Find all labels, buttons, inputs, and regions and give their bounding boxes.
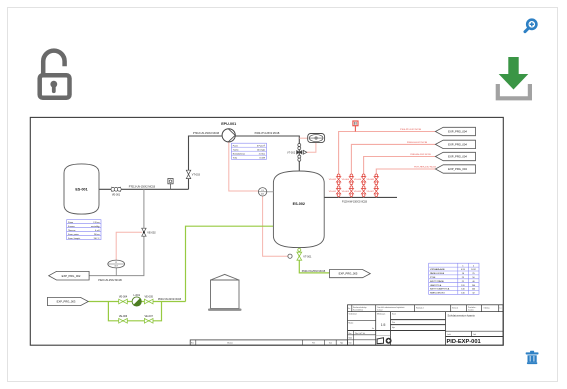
svg-text:2.3 bar: 2.3 bar xyxy=(259,153,266,155)
svg-text:Odottaa: Odottaa xyxy=(484,307,490,310)
svg-text:P040-VN-25X2 MC1B: P040-VN-25X2 MC1B xyxy=(302,270,326,273)
svg-text:2.5 bar: 2.5 bar xyxy=(93,222,100,224)
svg-text:PT013-UN-150X2 MC1B: PT013-UN-150X2 MC1B xyxy=(193,132,220,135)
svg-text:Hankala 4: Hankala 4 xyxy=(416,308,424,310)
svg-text:VD-007: VD-007 xyxy=(366,191,374,193)
wire green riser to ES-002 left xyxy=(186,226,274,301)
valve VT-003 xyxy=(186,170,191,178)
svg-text:007: 007 xyxy=(115,266,118,268)
valve VD-003 xyxy=(349,186,353,197)
svg-text:110 °C: 110 °C xyxy=(94,238,101,240)
svg-text:EXP_PRG_005: EXP_PRG_005 xyxy=(339,272,358,276)
svg-text:6 Pa/cm²: 6 Pa/cm² xyxy=(257,144,265,147)
wire impulse line EPU-001 to LS (pink) xyxy=(229,141,259,191)
wire impulse stub to PSA (pink) xyxy=(299,137,307,139)
svg-text:P077-HKK-DX2 NC1B: P077-HKK-DX2 NC1B xyxy=(414,166,436,168)
svg-text:10.5 kg/s: 10.5 kg/s xyxy=(257,149,265,151)
svg-text:L-001: L-001 xyxy=(133,293,140,297)
wire riser to EPU-001 suction xyxy=(189,136,223,189)
svg-text:Rev: Rev xyxy=(191,342,194,344)
svg-text:Sirukansa/selvitys: Sirukansa/selvitys xyxy=(353,306,367,309)
svg-text:VD-004: VD-004 xyxy=(342,179,350,181)
svg-text:P040-VN-32X2 NC1B: P040-VN-32X2 NC1B xyxy=(158,298,182,301)
svg-text:VD-001: VD-001 xyxy=(329,191,337,193)
vessel ES-002 xyxy=(273,171,324,248)
svg-text:Kuvaus: Kuvaus xyxy=(68,226,75,228)
svg-text:EPU-001: EPU-001 xyxy=(221,122,236,126)
off-page connector EXP_PRG_002 xyxy=(49,271,89,280)
svg-text:Suhdatusmaton kaavio: Suhdatusmaton kaavio xyxy=(448,314,476,318)
svg-text:Paine: Paine xyxy=(233,145,239,147)
off-page connector EXP_PRG_005 xyxy=(330,270,371,278)
design data table xyxy=(429,263,479,294)
off-page connector EXP_PRG_008 xyxy=(435,165,475,173)
wire EPU-001 discharge to ES-002 top xyxy=(235,136,299,171)
svg-text:LÄMPÖTILA: LÄMPÖTILA xyxy=(430,284,442,287)
svg-text:Mittakaava: Mittakaava xyxy=(377,313,385,316)
svg-text:Suun. paine: Suun. paine xyxy=(68,234,80,236)
svg-text:VE-001: VE-001 xyxy=(112,194,121,197)
svg-text:Paine: Paine xyxy=(68,222,74,224)
svg-text:Tilavuus: Tilavuus xyxy=(68,230,75,232)
off-page connector EXP_PRG_006 xyxy=(435,140,475,148)
svg-text:Lu: Lu xyxy=(500,308,502,310)
svg-text:001: 001 xyxy=(261,194,264,196)
valve VE-007 xyxy=(144,319,153,324)
svg-text:4a: 4a xyxy=(348,308,350,310)
data table ES-001 xyxy=(67,220,101,240)
wire impulse line VE-002 to PI-007 (pink) xyxy=(116,232,142,260)
valve VD-001 xyxy=(336,186,340,197)
svg-text:VE-007: VE-007 xyxy=(145,315,154,318)
svg-text:EXP_PRG_004: EXP_PRG_004 xyxy=(448,167,467,171)
svg-text:Rev: Rev xyxy=(349,333,352,335)
wire impulse PSA drain (pink) xyxy=(307,143,316,153)
trash icon xyxy=(526,351,539,364)
svg-text:VT-001: VT-001 xyxy=(303,255,312,258)
valve VD-005 xyxy=(361,186,365,197)
valve VE-001 xyxy=(111,187,121,191)
svg-text:PYSE: PYSE xyxy=(430,277,436,279)
svg-text:ES-002: ES-002 xyxy=(293,202,305,206)
svg-text:VIRTAAVA-AINE: VIRTAAVA-AINE xyxy=(430,268,445,271)
svg-text:Hyv: Hyv xyxy=(340,342,343,344)
wire relief line 3 (red) xyxy=(364,157,436,198)
svg-text:Jatk: Jatk xyxy=(473,333,476,336)
instrument PSA xyxy=(308,134,325,143)
wire green ES-002 bottom outlet xyxy=(299,247,329,273)
svg-text:P090-KH-DX2 NC1B: P090-KH-DX2 NC1B xyxy=(407,142,428,144)
wire PI-007 stub xyxy=(115,268,117,276)
storage tank xyxy=(208,274,242,311)
instrument PI-007 xyxy=(108,260,125,268)
wire gray line from EXP_PRG_002 xyxy=(89,189,144,275)
svg-text:EXP_PRG_003: EXP_PRG_003 xyxy=(57,300,76,304)
svg-text:Suun: Suun xyxy=(392,314,396,316)
wire green line from EXP_PRG_003 xyxy=(89,301,186,303)
svg-text:P120-KW-150X2 NC1B: P120-KW-150X2 NC1B xyxy=(342,201,367,204)
svg-text:in.staat: in.staat xyxy=(377,309,383,312)
valve VE-006 xyxy=(119,319,128,324)
svg-text:Tuotto: Tuotto xyxy=(233,148,239,151)
valve VD-002 xyxy=(336,174,340,185)
svg-text:4a: 4a xyxy=(372,328,374,330)
svg-text:20 bar: 20 bar xyxy=(94,234,100,236)
svg-text:EXP_PRG_004: EXP_PRG_004 xyxy=(448,155,467,159)
valve VT-002 with hand actuator xyxy=(297,144,307,162)
gear icon xyxy=(386,338,392,344)
wire ES-002 right outlet header xyxy=(324,196,397,198)
instrument square FI xyxy=(168,179,173,184)
svg-text:Versio 4: Versio 4 xyxy=(452,307,458,310)
pump L-001 xyxy=(132,297,141,306)
svg-text:Tark: Tark xyxy=(329,341,332,344)
svg-text:Suunnitelmat: Suunnitelmat xyxy=(353,309,363,312)
valve VE-002 xyxy=(142,228,146,236)
svg-text:Nostokorkeus: Nostokorkeus xyxy=(233,152,245,155)
off-page connector EXP_PRG_003 xyxy=(48,297,89,305)
lock icon xyxy=(40,51,70,98)
svg-text:neste/öljy: neste/öljy xyxy=(91,225,99,228)
svg-text:VD-002: VD-002 xyxy=(329,179,337,181)
svg-text:VD-003: VD-003 xyxy=(342,191,350,193)
off-page connector EXP_PRG_004 xyxy=(435,127,475,135)
svg-text:PID-EXP-001: PID-EXP-001 xyxy=(447,339,481,345)
vessel ES-001 xyxy=(64,164,99,214)
svg-text:muutos: muutos xyxy=(468,309,474,312)
svg-text:VE-002: VE-002 xyxy=(147,231,156,234)
svg-text:P022-UN-25X2 MC1B: P022-UN-25X2 MC1B xyxy=(98,279,122,282)
wire green bypass loop xyxy=(108,302,161,321)
svg-text:KÄYTTÖPAINE: KÄYTTÖPAINE xyxy=(430,280,445,283)
svg-text:15 kW: 15 kW xyxy=(259,157,265,159)
wire relief line 4 (red) xyxy=(376,169,435,197)
svg-text:Suun. lämpöt.: Suun. lämpöt. xyxy=(68,237,81,240)
svg-text:VE-005: VE-005 xyxy=(145,296,154,299)
svg-text:P100-P11-DX2 NC1B: P100-P11-DX2 NC1B xyxy=(400,129,422,131)
printer icon xyxy=(377,338,383,344)
svg-text:Muutos: Muutos xyxy=(227,341,233,344)
spec break box xyxy=(353,121,358,132)
valve VD-008 xyxy=(374,174,378,185)
wire instrument stub xyxy=(170,184,172,190)
title block xyxy=(348,305,504,345)
svg-text:VE-004: VE-004 xyxy=(119,296,128,299)
drawing frame xyxy=(30,117,503,345)
svg-text:PAINELUOKKA: PAINELUOKKA xyxy=(430,272,445,275)
svg-text:Tarkistanut: Tarkistanut xyxy=(349,313,358,316)
svg-text:VE-006: VE-006 xyxy=(119,315,128,318)
wire relief line 2 (red) xyxy=(351,144,435,197)
valve VT-001 xyxy=(297,248,302,260)
svg-text:Pvm/aika +: Pvm/aika + xyxy=(468,307,476,309)
valve VD-006 xyxy=(361,174,365,185)
data table EPU-001 xyxy=(231,143,266,159)
valve VD-007 xyxy=(374,186,378,197)
svg-text:Omn hld: rakentamisessa käytet: Omn hld: rakentamisessa käytettävä xyxy=(377,306,404,309)
svg-text:EXP_PRG_004: EXP_PRG_004 xyxy=(448,130,467,134)
svg-text:VD-008: VD-008 xyxy=(366,179,374,181)
svg-text:NIMELLISKOKO: NIMELLISKOKO xyxy=(430,293,445,295)
svg-text:Lehti: Lehti xyxy=(447,333,451,336)
svg-text:1:5: 1:5 xyxy=(381,323,386,327)
valve VE-005 xyxy=(144,299,153,304)
svg-text:PT013-UN-150X2 MC1B: PT013-UN-150X2 MC1B xyxy=(129,186,156,189)
valve VD-004 xyxy=(349,174,353,185)
svg-text:VT-003: VT-003 xyxy=(192,174,201,177)
wire relief line 1 (red) xyxy=(339,132,436,198)
wire impulse line LS to VT-001 (pink) xyxy=(263,196,288,256)
svg-text:KÄYTTÖLÄMPÖTILA: KÄYTTÖLÄMPÖTILA xyxy=(430,288,450,291)
svg-text:Hyv: Hyv xyxy=(392,327,395,329)
svg-text:VT-002: VT-002 xyxy=(287,151,296,154)
svg-text:VD-005: VD-005 xyxy=(354,191,362,193)
pump EPU-001 xyxy=(222,129,235,142)
svg-text:Gen: Gen xyxy=(349,342,352,344)
svg-text:VD-006: VD-006 xyxy=(354,179,362,181)
download icon xyxy=(498,57,530,98)
svg-text:P060-VH-125X2 MC1B: P060-VH-125X2 MC1B xyxy=(255,132,280,135)
valve VE-004 xyxy=(119,299,128,304)
svg-text:Pde & dT Tek: Pde & dT Tek xyxy=(355,333,365,335)
svg-text:EXP_PRG_004: EXP_PRG_004 xyxy=(448,143,467,147)
off-page connector EXP_PRG_007 xyxy=(435,152,475,160)
wire ES-001 outlet pipe xyxy=(99,188,189,190)
svg-text:P080-KH-DX2 NC1B: P080-KH-DX2 NC1B xyxy=(410,154,431,156)
revision strip xyxy=(190,340,347,345)
zoom-in icon xyxy=(525,20,536,32)
svg-text:EXP_PRG_002: EXP_PRG_002 xyxy=(62,274,81,278)
svg-text:ES-001: ES-001 xyxy=(75,188,87,192)
instrument LS xyxy=(258,188,273,196)
svg-text:Salk: Salk xyxy=(349,338,352,340)
svg-text:Muoto: Muoto xyxy=(349,321,354,324)
reducer at VT-001 xyxy=(288,254,292,258)
